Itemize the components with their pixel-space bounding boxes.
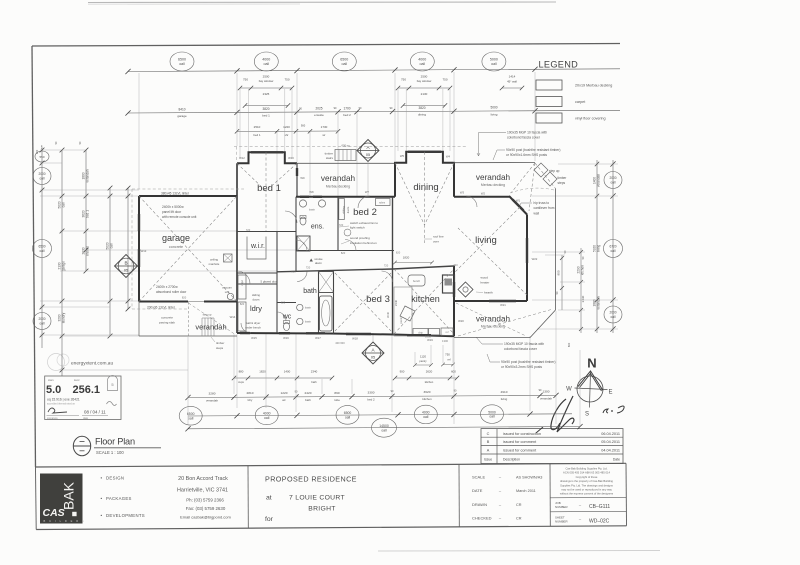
svg-text:1820: 1820 (403, 256, 410, 260)
svg-text:620: 620 (281, 301, 286, 305)
svg-text:insulation behind en: insulation behind en (350, 241, 377, 245)
svg-text:absorbond roller door: absorbond roller door (156, 290, 187, 294)
svg-text:level: level (74, 378, 80, 382)
svg-text:energyxtent.com.au: energyxtent.com.au (71, 361, 113, 367)
svg-text:256.1: 256.1 (73, 384, 101, 396)
svg-text:900: 900 (557, 270, 561, 275)
svg-text:verandah: verandah (85, 169, 89, 183)
svg-text:Ph: (03) 5759 2366: Ph: (03) 5759 2366 (186, 497, 224, 502)
svg-text:820: 820 (291, 270, 296, 274)
svg-text:wr: wr (323, 133, 326, 137)
svg-text:ensuite: ensuite (314, 113, 324, 117)
svg-text:shr: shr (285, 133, 289, 137)
svg-text:3280: 3280 (209, 391, 216, 395)
svg-text:190x35 MGP 10 fascia with: 190x35 MGP 10 fascia with (504, 342, 544, 346)
svg-text:bed 3: bed 3 (366, 294, 390, 305)
svg-text:verandah: verandah (596, 174, 600, 188)
svg-text:oall: oall (40, 322, 45, 326)
svg-text:1300: 1300 (543, 390, 550, 394)
svg-text:Copyright of these: Copyright of these (576, 475, 598, 479)
svg-text:ldry: ldry (250, 304, 262, 313)
svg-text:robe: robe (334, 398, 340, 402)
svg-text:bench: bench (413, 279, 421, 283)
svg-text:or 90x90x3.2mm SHS posts: or 90x90x3.2mm SHS posts (501, 365, 542, 369)
svg-text:3620: 3620 (424, 390, 431, 394)
svg-text:with remote console unit: with remote console unit (162, 215, 196, 219)
svg-text:W9: W9 (300, 176, 305, 180)
svg-text:2340: 2340 (311, 370, 318, 374)
svg-text:6500: 6500 (178, 58, 186, 62)
svg-text:600: 600 (451, 370, 456, 374)
svg-text:4000: 4000 (418, 58, 426, 62)
svg-text:bath: bath (303, 288, 317, 295)
svg-text:3820: 3820 (262, 107, 269, 111)
svg-text:W1: W1 (516, 199, 521, 203)
svg-text:W17: W17 (315, 336, 321, 340)
svg-text:oall: oall (61, 202, 65, 207)
svg-text:B U I L D E R S: B U I L D E R S (44, 519, 86, 523)
svg-text:1300: 1300 (442, 339, 448, 343)
svg-text:light switch: light switch (350, 226, 365, 230)
svg-text:720: 720 (453, 263, 458, 267)
svg-text:1414: 1414 (509, 75, 516, 79)
svg-text:unit: unit (225, 290, 230, 294)
svg-text:verandah: verandah (476, 173, 511, 182)
svg-text:wall: wall (534, 211, 540, 215)
svg-text:W18: W18 (352, 337, 358, 341)
svg-text:620: 620 (396, 251, 401, 255)
svg-text:890: 890 (334, 391, 339, 395)
svg-text:14500: 14500 (379, 424, 389, 428)
svg-text:switch exhaust fan to: switch exhaust fan to (350, 221, 378, 225)
svg-text:W15: W15 (251, 336, 257, 340)
svg-text:dining: dining (418, 113, 426, 117)
svg-text:600: 600 (567, 342, 571, 347)
svg-text:issued for comment: issued for comment (503, 449, 537, 453)
svg-text:720: 720 (306, 266, 311, 270)
svg-text:1730: 1730 (321, 125, 328, 129)
svg-text:colorbond fascia cover: colorbond fascia cover (504, 347, 538, 351)
svg-text:living: living (491, 112, 498, 116)
svg-text:Merbau decking: Merbau decking (481, 325, 505, 329)
svg-text:paving slab: paving slab (159, 321, 175, 325)
svg-text:dining: dining (413, 182, 438, 193)
svg-text:E: E (608, 390, 612, 396)
svg-text:2400h x 2700w: 2400h x 2700w (156, 285, 178, 289)
svg-text:W4: W4 (446, 155, 451, 159)
svg-text:5000: 5000 (490, 106, 497, 110)
svg-text:bed 2: bed 2 (343, 113, 351, 117)
svg-text:W21: W21 (500, 303, 506, 307)
svg-text:B: B (487, 440, 490, 444)
svg-text:bed 1: bed 1 (85, 210, 89, 218)
svg-text:oall: oall (188, 416, 194, 420)
svg-text:45° wall: 45° wall (507, 80, 517, 84)
svg-text:20x19 Merbau decking: 20x19 Merbau decking (575, 84, 612, 88)
svg-text:2000: 2000 (609, 311, 616, 315)
svg-text:concrete: concrete (169, 245, 183, 249)
svg-text:verandah: verandah (596, 296, 600, 310)
svg-text:for: for (265, 516, 274, 523)
svg-text:W22: W22 (532, 257, 538, 261)
svg-text:CHECKED: CHECKED (472, 516, 492, 521)
svg-text:stars: stars (48, 378, 54, 382)
svg-text:NUMBER: NUMBER (555, 505, 568, 509)
svg-text:2000: 2000 (609, 176, 616, 180)
svg-text:bath: bath (305, 398, 311, 402)
svg-text:750: 750 (284, 78, 289, 82)
svg-text:380x45 13LVL lintel: 380x45 13LVL lintel (161, 191, 189, 195)
svg-text:600 sq: 600 sq (341, 144, 350, 148)
svg-text:at: at (266, 495, 272, 502)
svg-text:bed 2: bed 2 (353, 207, 377, 218)
svg-text:W16: W16 (283, 336, 289, 340)
svg-text:Description: Description (503, 458, 520, 462)
svg-text:04.04.2011: 04.04.2011 (601, 449, 620, 453)
svg-text:ref: ref (447, 358, 450, 362)
svg-text:signature: signature (47, 416, 58, 420)
svg-text:verandah: verandah (321, 174, 356, 183)
svg-text:W2: W2 (481, 192, 486, 196)
svg-text:900: 900 (400, 370, 405, 374)
svg-text:doors: doors (346, 206, 350, 213)
svg-text:5.0: 5.0 (46, 384, 61, 396)
svg-text:oall: oall (40, 249, 45, 253)
svg-text:oall: oall (345, 415, 351, 419)
svg-text:W7: W7 (365, 190, 370, 194)
svg-text:05: 05 (124, 269, 128, 273)
svg-text:bed 1: bed 1 (254, 133, 261, 137)
svg-text:DATE: DATE (472, 488, 483, 493)
svg-text:steps: steps (216, 346, 224, 350)
svg-text:2500: 2500 (263, 75, 270, 79)
svg-text:ensuite: ensuite (85, 246, 89, 257)
svg-text:without the express consent of: without the express consent of the desig… (560, 492, 614, 496)
svg-text:1220: 1220 (281, 391, 288, 395)
svg-text:cupd: cupd (240, 280, 244, 286)
svg-text:820: 820 (182, 296, 187, 300)
svg-text:2510: 2510 (254, 125, 261, 129)
svg-text:pantry: pantry (399, 316, 403, 324)
svg-text:90x90 post (bushfire resistant: 90x90 post (bushfire resistant timber) (506, 148, 560, 152)
svg-text:W10: W10 (288, 156, 294, 160)
svg-text:bed 2: bed 2 (367, 398, 375, 402)
svg-text:vinyl floor covering: vinyl floor covering (575, 117, 606, 121)
svg-text:B: B (124, 261, 127, 266)
svg-text:concrete: concrete (161, 316, 173, 320)
svg-text:cantilever from: cantilever from (534, 206, 555, 210)
svg-text:oall: oall (611, 249, 616, 253)
svg-text:BRIGHT: BRIGHT (308, 505, 335, 512)
svg-text:Cas-Bak Building Supplies Pty.: Cas-Bak Building Supplies Pty. Ltd. (565, 467, 607, 471)
svg-text:date: date (83, 416, 89, 420)
svg-text:Supplies Pty. Ltd. The drawing: Supplies Pty. Ltd. The drawings and desi… (560, 483, 613, 487)
svg-text:bath: bath (311, 380, 317, 384)
svg-text:W13: W13 (141, 249, 147, 253)
svg-text:2025: 2025 (315, 107, 322, 111)
svg-text:05: 05 (371, 356, 375, 360)
svg-text:PACKAGES: PACKAGES (106, 496, 132, 501)
svg-text:880: 880 (239, 370, 244, 374)
svg-text:Email casbak@bigpond.com: Email casbak@bigpond.com (180, 515, 231, 520)
svg-text:hip truss to: hip truss to (534, 201, 550, 205)
svg-text:6500: 6500 (344, 411, 352, 415)
svg-text:750: 750 (401, 78, 406, 82)
svg-text:2325: 2325 (263, 92, 270, 96)
svg-text:820: 820 (240, 302, 245, 306)
svg-text:kitchen: kitchen (411, 294, 440, 304)
svg-text:Floor Plan: Floor Plan (95, 437, 135, 447)
svg-text:ldry: ldry (248, 398, 253, 402)
svg-text:W14: W14 (230, 315, 236, 319)
svg-text:2340: 2340 (394, 299, 398, 306)
svg-text:oall: oall (179, 62, 185, 66)
svg-text:720: 720 (246, 228, 251, 232)
svg-text:verandah: verandah (195, 323, 226, 332)
svg-text:or 90x90x1.6mm SHS posts: or 90x90x1.6mm SHS posts (506, 153, 547, 157)
svg-text:robes: robes (379, 202, 386, 205)
svg-text:wc: wc (282, 398, 286, 402)
svg-text:08 / 04 / 11: 08 / 04 / 11 (84, 410, 106, 415)
svg-text:6500: 6500 (38, 245, 45, 249)
svg-text:drawings is the property of Ca: drawings is the property of Cas-Bak Buil… (560, 479, 613, 483)
svg-text:heater: heater (481, 281, 490, 285)
svg-text:uq 15.916 | exe 26421: uq 15.916 | exe 26421 (47, 397, 80, 401)
svg-text:steps: steps (558, 181, 566, 185)
svg-text:W: W (566, 387, 572, 393)
svg-text:W12: W12 (239, 156, 245, 160)
svg-text:4000: 4000 (262, 58, 270, 62)
svg-text:1080: 1080 (425, 335, 431, 339)
svg-text:DESIGN: DESIGN (106, 476, 124, 481)
svg-text:oall: oall (264, 416, 270, 420)
svg-text:S: S (585, 412, 589, 418)
svg-text:W5: W5 (400, 154, 405, 158)
svg-text:sound proofing: sound proofing (350, 236, 370, 240)
svg-text:oall: oall (341, 62, 347, 66)
svg-text:bed 1: bed 1 (262, 114, 270, 118)
svg-text:issued for comment: issued for comment (503, 440, 537, 444)
svg-text:1220: 1220 (283, 125, 290, 129)
svg-text:verandah: verandah (206, 398, 218, 402)
svg-text:ref: ref (446, 331, 449, 334)
svg-text:N: N (587, 356, 596, 371)
svg-text:C: C (487, 432, 490, 436)
svg-text:sliding: sliding (342, 206, 346, 214)
svg-text:190x35 MGP 10 fascia with: 190x35 MGP 10 fascia with (507, 131, 547, 135)
svg-text:oall: oall (491, 62, 497, 66)
svg-text:oall: oall (40, 177, 45, 181)
svg-text:SCALE: SCALE (472, 475, 485, 480)
svg-text:timber: timber (216, 341, 224, 345)
svg-text:basin: basin (305, 306, 312, 310)
svg-text:NUMBER: NUMBER (555, 519, 568, 523)
svg-text:oall: oall (611, 181, 616, 185)
svg-text:7 LOUIE COURT: 7 LOUIE COURT (289, 495, 345, 502)
svg-text:kitchen: kitchen (580, 265, 584, 275)
svg-text:under bench: under bench (245, 326, 261, 330)
svg-text:garage: garage (162, 233, 190, 243)
svg-text:2810: 2810 (247, 391, 254, 395)
svg-text:living: living (501, 397, 508, 401)
svg-text:kitchen: kitchen (425, 380, 434, 384)
svg-text:CB–G111: CB–G111 (589, 504, 610, 510)
svg-text:March 2011: March 2011 (516, 489, 536, 493)
svg-text:Fax: (03) 5759 2630: Fax: (03) 5759 2630 (186, 506, 226, 511)
svg-text:Harrietville, VIC 3741: Harrietville, VIC 3741 (177, 488, 228, 494)
svg-text:sliding: sliding (252, 293, 260, 297)
svg-text:basin: basin (305, 320, 312, 324)
svg-text:300: 300 (35, 149, 39, 154)
svg-text:oall: oall (109, 243, 113, 248)
svg-text:2430: 2430 (581, 295, 585, 302)
svg-text:900: 900 (301, 124, 306, 128)
svg-text:oall: oall (611, 315, 616, 319)
svg-text:laundry: laundry (61, 312, 65, 323)
svg-text:accredited thermal rated as: accredited thermal rated as (47, 403, 76, 406)
svg-text:4000: 4000 (263, 412, 271, 416)
svg-text:5 glazed door: 5 glazed door (261, 280, 278, 284)
svg-text:Issue: Issue (484, 458, 492, 462)
svg-text:2620: 2620 (426, 370, 433, 374)
svg-text:05: 05 (366, 153, 370, 157)
svg-text:LEGEND: LEGEND (539, 60, 579, 70)
svg-text:garage: garage (61, 261, 65, 271)
svg-text:2130: 2130 (421, 92, 428, 96)
svg-text:W3: W3 (460, 191, 465, 195)
svg-text:750: 750 (243, 78, 248, 82)
svg-text:CR: CR (516, 517, 522, 521)
svg-text:4910: 4910 (501, 390, 508, 394)
svg-text:verandah: verandah (540, 397, 552, 401)
svg-text:2400h x 5000w: 2400h x 5000w (162, 205, 184, 209)
svg-text:kitchen: kitchen (422, 397, 432, 401)
svg-text:8410: 8410 (178, 107, 185, 111)
svg-text:over: over (433, 240, 439, 244)
svg-text:hearth: hearth (484, 291, 493, 295)
svg-text:4000: 4000 (422, 411, 430, 415)
svg-text:alarm: alarm (315, 261, 323, 265)
svg-text:W8: W8 (309, 190, 314, 194)
svg-text:carpet: carpet (575, 100, 585, 104)
svg-text:6720: 6720 (609, 245, 616, 249)
svg-text:550: 550 (39, 155, 44, 159)
svg-text:1120: 1120 (420, 355, 426, 359)
svg-text:issued for construction: issued for construction (503, 432, 541, 436)
svg-text:1400: 1400 (284, 370, 291, 374)
svg-text:ens.: ens. (311, 224, 324, 231)
svg-text:Merbau decking: Merbau decking (481, 183, 505, 187)
svg-text:timber: timber (558, 176, 568, 180)
svg-text:Date: Date (613, 458, 620, 462)
svg-text:living: living (475, 235, 497, 246)
svg-text:1820: 1820 (259, 370, 266, 374)
svg-text:roof line: roof line (433, 235, 444, 239)
svg-text:oall: oall (381, 428, 387, 432)
svg-text:doors: doors (253, 298, 261, 302)
svg-text:2420: 2420 (305, 391, 312, 395)
svg-text:cups: cups (238, 381, 244, 384)
svg-text:DEVELOPMENTS: DEVELOPMENTS (106, 513, 145, 518)
svg-text:garage: garage (177, 114, 187, 118)
svg-text:oall: oall (489, 415, 495, 419)
svg-text:BAK: BAK (61, 481, 77, 510)
svg-text:DRAWN: DRAWN (472, 502, 487, 507)
svg-text:pantry: pantry (419, 359, 427, 363)
svg-text:wc: wc (282, 314, 292, 321)
svg-text:ceiling: ceiling (210, 258, 218, 262)
svg-text:verandah: verandah (476, 315, 511, 324)
svg-text:720: 720 (339, 223, 344, 227)
svg-text:WD–02C: WD–02C (589, 518, 610, 524)
svg-text:ACN 005 405 014 ABN 63 005 485: ACN 005 405 014 ABN 63 005 485 014 (563, 471, 610, 475)
svg-text:5000: 5000 (490, 58, 498, 62)
svg-text:3040: 3040 (386, 311, 390, 318)
svg-text:20 Bon Accord Track: 20 Bon Accord Track (178, 476, 228, 482)
svg-text:CAS: CAS (43, 507, 65, 519)
svg-text:CR: CR (516, 503, 522, 507)
svg-text:wood: wood (481, 276, 489, 280)
svg-text:2000: 2000 (38, 317, 45, 321)
svg-text:stairs: stairs (326, 156, 334, 160)
svg-text:living: living (596, 245, 600, 252)
svg-text:panel lift door: panel lift door (162, 210, 182, 214)
svg-text:manhole: manhole (209, 262, 220, 266)
svg-text:oall: oall (423, 415, 429, 419)
svg-text:820: 820 (341, 251, 346, 255)
svg-text:2500: 2500 (421, 75, 428, 79)
svg-text:1700: 1700 (343, 106, 350, 110)
svg-text:W20: W20 (458, 319, 464, 323)
svg-text:90x90 post (bushfire resistant: 90x90 post (bushfire resistant timber) (501, 360, 555, 364)
svg-text:2000: 2000 (38, 172, 45, 176)
svg-text:bay window: bay window (259, 79, 275, 83)
svg-text:720: 720 (384, 264, 389, 268)
svg-text:w.i.r.: w.i.r. (250, 243, 265, 250)
svg-text:oall: oall (263, 62, 269, 66)
svg-text:5000: 5000 (488, 410, 496, 414)
svg-text:timber: timber (325, 152, 333, 156)
svg-text:750: 750 (442, 78, 447, 82)
svg-text:W19: W19 (427, 338, 433, 342)
svg-text:3820: 3820 (418, 106, 425, 110)
svg-text:A: A (487, 449, 490, 453)
svg-text:Merbau decking: Merbau decking (326, 185, 350, 189)
svg-text:bay window: bay window (417, 79, 433, 83)
svg-text:SCALE 1 : 100: SCALE 1 : 100 (96, 450, 124, 455)
svg-text:3300: 3300 (368, 391, 375, 395)
svg-text:PROPOSED RESIDENCE: PROPOSED RESIDENCE (265, 475, 357, 484)
svg-text:may not be used or reproduced: may not be used or reproduced in any way (561, 488, 612, 492)
svg-text:06.04.2011: 06.04.2011 (601, 432, 620, 436)
svg-text:05.04.2011: 05.04.2011 (601, 440, 620, 444)
svg-text:basin: basin (309, 208, 316, 212)
svg-text:750: 750 (445, 353, 450, 357)
svg-text:colorbond fascia cover: colorbond fascia cover (507, 136, 541, 140)
svg-text:400 600: 400 600 (335, 341, 345, 345)
svg-text:6500: 6500 (340, 58, 348, 62)
svg-text:oall: oall (419, 62, 425, 66)
svg-text:wall & dryer: wall & dryer (246, 321, 261, 325)
svg-text:AS SHOWN/A3: AS SHOWN/A3 (516, 476, 542, 480)
